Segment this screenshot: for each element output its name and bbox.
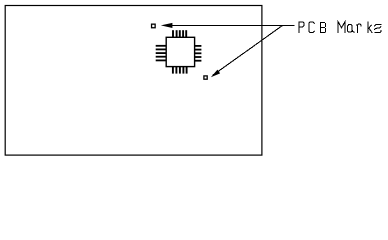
pin L2 [156, 49, 167, 51]
label "PCB Marks" [299, 22, 381, 33]
arrowhead 1 (points left at mark 1) [161, 23, 173, 28]
pin B4 [182, 66, 184, 73]
pin B3 [179, 66, 181, 73]
pin T5 [185, 30, 187, 37]
pin R4 [195, 56, 202, 58]
leader line diagonal [213, 25, 283, 75]
letter r [356, 24, 361, 32]
pin R5 [195, 60, 202, 62]
letter B [321, 23, 326, 33]
leader line horizontal [169, 24, 294, 26]
pin T1 [172, 30, 174, 37]
arrowhead 2 (points down-left at mark 2) [211, 70, 220, 78]
pin R2 [195, 49, 202, 51]
fiducial mark 1 (top left PCB mark) [152, 24, 156, 28]
letter a [347, 25, 354, 33]
pin R1 [195, 45, 202, 47]
pin T2 [176, 30, 178, 37]
pin B1 [172, 66, 174, 73]
pin B2 [175, 66, 177, 73]
letter k [368, 22, 372, 33]
pin L4 [156, 56, 167, 58]
pin T4 [182, 30, 184, 37]
fiducial mark 2 (bottom right PCB mark) [204, 76, 207, 79]
letter s [375, 25, 382, 33]
pin L3 [156, 52, 167, 54]
pin B5 [186, 66, 188, 73]
pin T3 [179, 30, 181, 37]
letter C [309, 22, 314, 33]
pin R3 [195, 52, 202, 54]
letter P [299, 22, 304, 33]
IC chip U1 body [166, 37, 194, 66]
PCB board outline [5, 6, 262, 156]
pin L5 [156, 60, 167, 62]
letter M [338, 22, 345, 33]
pin L1 [156, 45, 167, 47]
